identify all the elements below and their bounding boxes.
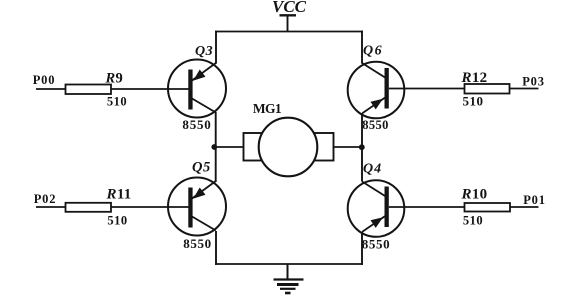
svg-text:510: 510 bbox=[463, 94, 484, 109]
wire Q4 base to R10 bbox=[389, 206, 465, 208]
wire left rail middle bbox=[215, 112, 217, 181]
svg-text:P03: P03 bbox=[522, 75, 545, 89]
wire right rail middle bbox=[361, 113, 363, 182]
resistor R10 bbox=[465, 203, 511, 212]
label Q3 bbox=[195, 44, 213, 59]
transistor Q3 bbox=[168, 60, 226, 118]
transistor Q5 bbox=[168, 178, 226, 236]
wire R12 to P03 bbox=[510, 88, 539, 90]
label Q6 bbox=[363, 44, 383, 59]
svg-text:Q4: Q4 bbox=[363, 162, 382, 177]
svg-text:510: 510 bbox=[463, 213, 483, 227]
wire R11 to Q5 base bbox=[111, 206, 190, 208]
label R12 bbox=[461, 70, 488, 86]
wire R10 to P01 bbox=[510, 206, 539, 208]
label P03 bbox=[522, 75, 545, 89]
svg-text:R12: R12 bbox=[461, 70, 488, 86]
resistor R11 bbox=[66, 203, 112, 212]
svg-text:R10: R10 bbox=[461, 186, 488, 202]
power VCC symbol bbox=[280, 15, 297, 32]
label R11 bbox=[106, 186, 132, 202]
svg-text:8550: 8550 bbox=[362, 237, 390, 252]
value 510 (R10) bbox=[463, 213, 483, 227]
label Q4 bbox=[363, 162, 382, 177]
svg-text:510: 510 bbox=[107, 94, 127, 108]
value 510 (R12) bbox=[463, 94, 484, 109]
motor MG1 bbox=[244, 118, 334, 177]
label MG1 bbox=[253, 101, 282, 116]
wire left rail lower bbox=[215, 231, 217, 265]
value 510 (R9) bbox=[107, 94, 127, 108]
wire R9 to Q3 base bbox=[111, 88, 189, 90]
wire left rail to motor bbox=[214, 146, 245, 148]
svg-text:8550: 8550 bbox=[362, 118, 389, 132]
wire Q6 base to R12 bbox=[389, 88, 465, 90]
wire P02 lead bbox=[36, 206, 66, 208]
label R10 bbox=[461, 186, 488, 202]
svg-text:8550: 8550 bbox=[183, 236, 211, 251]
node left motor junction bbox=[211, 144, 217, 150]
svg-text:510: 510 bbox=[107, 213, 127, 227]
svg-text:R11: R11 bbox=[106, 186, 132, 202]
svg-text:P02: P02 bbox=[34, 192, 57, 206]
wire left rail upper bbox=[215, 31, 217, 64]
wire motor to right rail bbox=[333, 146, 363, 148]
svg-text:8550: 8550 bbox=[182, 117, 211, 132]
svg-text:Q6: Q6 bbox=[363, 44, 383, 59]
value 8550 (Q4) bbox=[362, 237, 390, 252]
label P00 bbox=[33, 73, 56, 87]
svg-text:R9: R9 bbox=[105, 70, 124, 86]
wire top rail bbox=[215, 31, 363, 33]
svg-text:MG1: MG1 bbox=[253, 101, 282, 116]
svg-text:P01: P01 bbox=[523, 193, 546, 207]
wire bottom rail bbox=[215, 263, 363, 265]
value 8550 (Q6) bbox=[362, 118, 389, 132]
label Q5 bbox=[192, 160, 211, 176]
value 510 (R11) bbox=[107, 213, 127, 227]
label VCC bbox=[272, 0, 307, 16]
svg-text:P00: P00 bbox=[33, 73, 56, 87]
label P01 bbox=[523, 193, 546, 207]
value 8550 (Q3) bbox=[182, 117, 211, 132]
value 8550 (Q5) bbox=[183, 236, 211, 251]
wire P00 lead bbox=[36, 88, 66, 90]
wire right rail upper bbox=[361, 31, 363, 64]
wire right rail lower bbox=[361, 232, 363, 265]
svg-text:Q3: Q3 bbox=[195, 44, 213, 59]
transistor Q6 bbox=[348, 62, 405, 119]
resistor R9 bbox=[66, 85, 112, 95]
label P02 bbox=[34, 192, 57, 206]
transistor Q4 bbox=[348, 180, 405, 237]
label R9 bbox=[105, 70, 124, 86]
ground bbox=[274, 264, 304, 293]
svg-text:Q5: Q5 bbox=[192, 160, 211, 176]
node right motor junction bbox=[359, 144, 365, 150]
svg-text:VCC: VCC bbox=[272, 0, 307, 16]
resistor R12 bbox=[465, 84, 510, 94]
